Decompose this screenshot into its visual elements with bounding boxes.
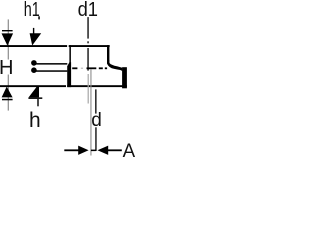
svg-text:h: h [29,109,41,132]
axis centerline dash 3 [99,67,103,69]
arrowhead h1 (half arrow, down) [30,33,42,45]
axis centerline dot (faint) [81,68,83,69]
body top edge [69,45,110,47]
leader line d (upper segment) [95,89,96,113]
body bottom edge [67,85,127,87]
axis centerline dash 4 [105,67,107,69]
arrowhead A (left pointing) [98,146,109,155]
leader stub h1 [38,16,40,19]
leader line h [37,99,38,106]
body left edge (thin upper) [69,45,71,64]
arrowhead H top (down) [2,33,14,45]
step shoulder curve [107,60,122,71]
svg-text:h1: h1 [24,0,40,21]
leader line h1 [33,28,34,34]
arrowhead h (up, half arrow) [29,87,39,98]
dimension line A right part [107,149,122,151]
spigot end wall (thick bar right) [122,67,127,88]
dimension line A left part [64,149,79,151]
top extension line [0,45,67,47]
crossbar H bottom [2,99,13,101]
arrowhead A (right pointing) [78,146,88,155]
centerline d1 through body [87,48,88,71]
centerline d1 (vertical) upper leader [87,17,88,38]
crossbar H top [2,30,13,31]
extension line at axis (gray vertical) [90,69,91,156]
crossbar h [28,97,42,99]
svg-text:H: H [0,57,13,79]
dimension line H (gray vertical, lower segment) [8,75,9,111]
dimension connector between ticks [91,150,96,152]
seal leader dot 2 [31,67,37,73]
seal leader line 1 [34,63,67,65]
seal leader dot 1 [31,60,37,66]
bottom extension line [0,85,66,87]
arrowhead H bottom (up) [2,87,13,98]
dimension line H (gray vertical, upper segment) [8,19,9,59]
seal leader line 2 [34,70,67,72]
axis centerline dash 1 [72,67,77,69]
step vertical edge [107,45,109,61]
axis centerline dash 2 [87,67,97,69]
body left socket wall (thick bar) [67,62,71,87]
leader line d (lower segment / extension tick) [95,127,96,151]
centerline d1 tick across top edge [87,41,88,43]
svg-text:A: A [123,140,135,160]
centerline d1 below body (faded) [88,74,89,104]
